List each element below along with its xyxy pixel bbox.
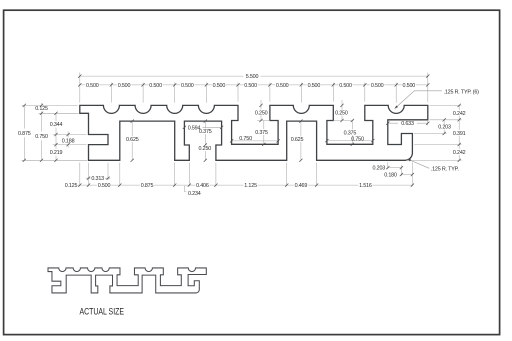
svg-text:0.633: 0.633: [401, 121, 414, 127]
ticks groove2 0.375/0.250: [204, 120, 207, 162]
ticks 5.500: [78, 75, 429, 78]
dim slot1 0.750 line: [232, 140, 279, 142]
right extension lines: [406, 105, 462, 160]
svg-text:0.625: 0.625: [291, 137, 304, 143]
svg-text:0.125: 0.125: [35, 106, 48, 112]
svg-text:0.391: 0.391: [453, 131, 466, 137]
dim 5.500 line: [80, 75, 428, 77]
ticks 0.203 right: [443, 118, 446, 135]
svg-text:0.375: 0.375: [255, 130, 268, 136]
dim 0.125 / 0.750 line (left): [41, 103, 43, 160]
ticks 0.313: [87, 177, 110, 180]
svg-text:0.188: 0.188: [62, 139, 75, 145]
profile outline (extrusion cross-section): [80, 105, 428, 160]
svg-text:0.750: 0.750: [35, 134, 48, 140]
ticks 0.203 bottom: [386, 166, 403, 169]
svg-text:0.875: 0.875: [141, 183, 154, 189]
dim 0.344 / 0.219 line (left): [55, 113, 57, 160]
ticks left 0.188: [67, 133, 70, 146]
svg-text:0.500: 0.500: [181, 83, 194, 89]
svg-text:0.500: 0.500: [98, 183, 111, 189]
dim groove2 neck 0.250 line: [204, 145, 206, 160]
label background gaps (white): [85, 73, 416, 188]
svg-text:0.203: 0.203: [373, 166, 386, 172]
dim slot2 0.750 line: [327, 140, 373, 142]
svg-text:0.875: 0.875: [18, 131, 31, 137]
ticks right column: [458, 104, 461, 162]
ticks groove2 0.594: [183, 126, 223, 129]
svg-text:1.516: 1.516: [359, 183, 372, 189]
dim groove3 0.625 line: [300, 121, 302, 160]
ticks slot2 0.250/0.375: [340, 104, 354, 146]
svg-text:0.125: 0.125: [65, 183, 78, 189]
svg-text:0.250: 0.250: [255, 110, 268, 116]
dimension tick arrows (45-degree slashes): [23, 75, 461, 187]
svg-text:0.500: 0.500: [276, 83, 289, 89]
svg-text:0.500: 0.500: [86, 83, 99, 89]
svg-text:1.125: 1.125: [244, 183, 257, 189]
svg-text:0.469: 0.469: [295, 183, 308, 189]
ticks groove3 0.625: [299, 120, 302, 162]
dim 0.633 line: [388, 122, 428, 124]
svg-text:0.500: 0.500: [339, 83, 352, 89]
dim 0.203 line (right): [443, 120, 445, 134]
svg-text:0.203: 0.203: [438, 125, 451, 131]
svg-text:0.500: 0.500: [308, 83, 321, 89]
dim 0.500 row line: [80, 84, 428, 86]
svg-text:0.750: 0.750: [239, 136, 252, 142]
leader .125 R TYP (6): [395, 91, 442, 109]
svg-text:0.234: 0.234: [188, 191, 201, 197]
svg-text:0.250: 0.250: [199, 146, 212, 152]
svg-text:0.500: 0.500: [371, 83, 384, 89]
svg-text:0.344: 0.344: [50, 122, 63, 128]
ticks left 0.125/0.750: [40, 104, 43, 162]
svg-text:0.313: 0.313: [91, 176, 104, 182]
ticks left 0.875: [23, 104, 26, 162]
svg-text:ACTUAL SIZE: ACTUAL SIZE: [80, 306, 125, 316]
leader lines for radius callouts: [395, 91, 442, 169]
svg-text:0.375: 0.375: [344, 130, 357, 136]
svg-text:0.750: 0.750: [351, 136, 364, 142]
ticks bottom row: [78, 184, 414, 187]
svg-text:0.406: 0.406: [196, 183, 209, 189]
dim 0.875 line (left): [23, 105, 25, 160]
svg-text:0.500: 0.500: [149, 83, 162, 89]
bottom extension lines: [80, 162, 413, 186]
svg-text:0.500: 0.500: [244, 83, 257, 89]
ticks 0.180 bottom: [400, 173, 414, 176]
dim 0.188 line (left): [67, 132, 69, 148]
leader .125 R TYP: [407, 159, 429, 168]
ticks groove1 0.625: [131, 120, 134, 162]
top extension lines (0.5in grid): [80, 73, 428, 103]
dim 0.313 line: [86, 177, 111, 179]
svg-text:0.500: 0.500: [118, 83, 131, 89]
ticks slot1 0.250/0.375: [259, 104, 265, 146]
svg-text:0.219: 0.219: [50, 150, 63, 156]
ticks slot1 0.750: [230, 139, 280, 142]
dim slot2 0.250 line + shoulder extension: [333, 100, 353, 121]
svg-text:0.242: 0.242: [453, 150, 466, 156]
dim 0.203 line (bottom right): [388, 167, 402, 169]
svg-text:0.242: 0.242: [453, 111, 466, 117]
dim groove1 0.625 line: [131, 121, 133, 160]
dim groove2 0.594 line: [184, 126, 221, 128]
dim 0.180 line (bottom right): [401, 174, 412, 176]
dim right column line (0.242/0.391/0.242): [458, 105, 460, 160]
ticks 0.500 row: [78, 83, 429, 86]
dim 0.234 elbow: [184, 186, 186, 192]
dim slot2 0.375 line: [351, 121, 353, 145]
svg-text:0.375: 0.375: [199, 129, 212, 135]
svg-text:.125 R. TYP. (6): .125 R. TYP. (6): [444, 89, 480, 95]
dim slot1 0.375 line: [263, 121, 265, 145]
svg-text:5.500: 5.500: [246, 74, 259, 80]
svg-text:.125 R. TYP.: .125 R. TYP.: [431, 166, 459, 172]
svg-text:0.500: 0.500: [403, 83, 416, 89]
ticks left 0.344/0.219: [54, 112, 57, 162]
dim bottom main row line: [78, 184, 412, 186]
left extension lines: [22, 105, 88, 160]
ticks slot2 0.750: [325, 139, 374, 142]
svg-text:0.625: 0.625: [126, 137, 139, 143]
dim slot1 0.250 line + shoulder extension: [257, 100, 270, 121]
svg-text:0.250: 0.250: [335, 111, 348, 117]
svg-text:0.500: 0.500: [213, 83, 226, 89]
leader arrowheads: [395, 105, 411, 161]
actual-size profile (scaled copy, bottom left): [48, 268, 206, 293]
dim groove2 0.375 line: [204, 121, 206, 145]
ticks 0.633: [386, 122, 429, 125]
svg-text:0.180: 0.180: [384, 173, 397, 179]
